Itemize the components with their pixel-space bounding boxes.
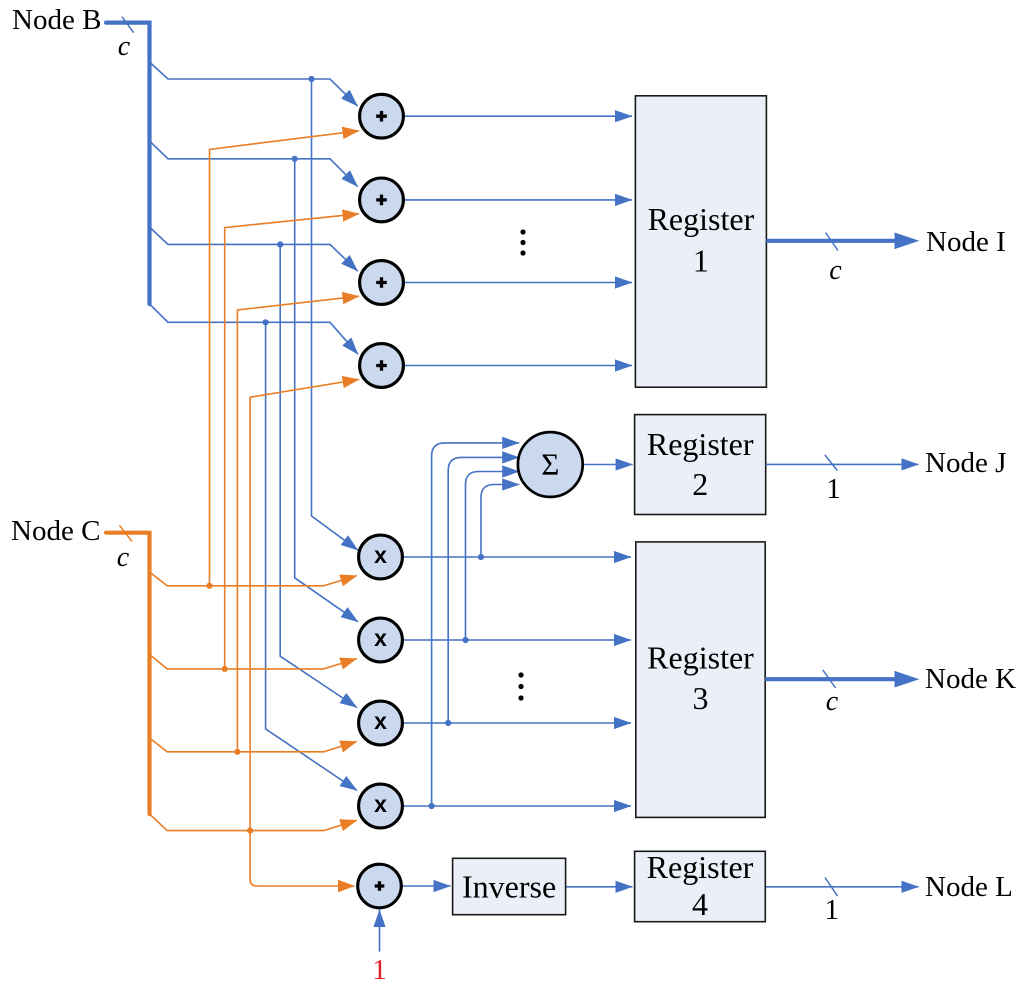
wire: B tap 3 down to multiplier M3 bbox=[280, 244, 357, 707]
inverse unit bbox=[453, 858, 566, 914]
wire: inverse output to register 4 bbox=[566, 886, 633, 888]
adder A2 bbox=[360, 178, 404, 222]
adder A1 bbox=[360, 94, 404, 138]
wire: M1 tap up to sigma input 4 bbox=[481, 485, 519, 558]
node B bus wire bbox=[106, 23, 150, 304]
svg-text:4: 4 bbox=[692, 886, 708, 922]
wire: adder A1 output to register 1 bbox=[404, 115, 632, 117]
svg-text:x: x bbox=[374, 791, 387, 817]
svg-text:Register: Register bbox=[647, 849, 754, 885]
svg-text:1: 1 bbox=[693, 243, 709, 279]
node L output wire bbox=[766, 886, 919, 888]
wire: sigma output to register 2 bbox=[583, 464, 633, 466]
wire: B branch 1 to adder A1 bbox=[150, 62, 358, 106]
ellipsis dots between multipliers bbox=[518, 672, 523, 700]
adder A3 bbox=[360, 261, 404, 305]
svg-text:Node B: Node B bbox=[12, 4, 101, 36]
register 4 bbox=[635, 849, 766, 922]
width slash (1) node J bbox=[825, 455, 837, 471]
wire: adder A4 output to register 1 bbox=[404, 365, 632, 367]
svg-text:1: 1 bbox=[824, 894, 839, 926]
junction dot M3 bbox=[445, 720, 451, 726]
wire: B branch 2 to adder A2 bbox=[150, 141, 358, 187]
junction dot C4 bbox=[247, 828, 253, 834]
svg-text:1: 1 bbox=[372, 954, 387, 986]
bus width slash (c) on node B bbox=[122, 17, 134, 33]
junction dot B1 bbox=[308, 76, 314, 82]
summation unit sigma bbox=[518, 432, 583, 497]
svg-text:1: 1 bbox=[826, 473, 841, 505]
wire: multiplier M4 output to register 3 bbox=[403, 805, 631, 807]
wire: B tap 1 down to multiplier M1 bbox=[312, 79, 359, 550]
junction dot C3 bbox=[234, 749, 240, 755]
wire: multiplier M1 output to register 3 bbox=[403, 556, 631, 558]
wire: C tap 3 up to adder A3 bbox=[237, 296, 359, 752]
junction dot B2 bbox=[292, 156, 298, 162]
multiplier M3 bbox=[359, 701, 403, 745]
svg-text:Inverse: Inverse bbox=[462, 869, 556, 905]
junction dot C2 bbox=[222, 666, 228, 672]
svg-text:x: x bbox=[374, 708, 387, 734]
adder A5 bbox=[358, 864, 402, 908]
svg-text:Register: Register bbox=[647, 426, 754, 462]
node C bus wire bbox=[106, 533, 150, 814]
wire: C tap 4 up to adder A4 bbox=[250, 379, 359, 830]
junction dot B4 bbox=[263, 319, 269, 325]
multiplier M2 bbox=[359, 618, 403, 662]
svg-text:Node I: Node I bbox=[926, 226, 1006, 258]
bus width slash (c) node I bbox=[826, 233, 839, 251]
wire: adder A3 output to register 1 bbox=[404, 282, 632, 284]
wire: B branch 4 to adder A4 bbox=[150, 304, 359, 354]
svg-text:c: c bbox=[826, 686, 839, 717]
wire: C tap 1 up to adder A1 bbox=[210, 131, 360, 586]
junction dot M2 bbox=[462, 637, 468, 643]
wire: C branch 2 to multiplier M2 bbox=[150, 654, 357, 669]
wire: constant 1 up into adder A5 bbox=[379, 910, 381, 951]
svg-text:2: 2 bbox=[692, 466, 708, 502]
wire: C branch 4 to multiplier M4 bbox=[150, 814, 357, 831]
svg-text:3: 3 bbox=[693, 680, 709, 716]
svg-text:Σ: Σ bbox=[541, 446, 559, 481]
bus width slash (c) on node C bbox=[120, 526, 133, 542]
junction dot M4 bbox=[429, 803, 435, 809]
svg-text:Register: Register bbox=[648, 201, 755, 237]
svg-text:Node L: Node L bbox=[925, 871, 1013, 903]
svg-text:c: c bbox=[117, 542, 130, 573]
register 2 bbox=[635, 415, 766, 515]
bus width slash (c) node K bbox=[823, 670, 836, 688]
ellipsis dots between adders bbox=[520, 229, 525, 255]
node K output bus bbox=[765, 677, 895, 681]
svg-text:x: x bbox=[374, 625, 387, 651]
wire: multiplier M3 output to register 3 bbox=[403, 722, 631, 724]
wire: M4 tap up to sigma input 1 bbox=[432, 443, 520, 806]
svg-text:c: c bbox=[118, 31, 131, 62]
svg-text:Node J: Node J bbox=[925, 447, 1006, 479]
junction dot M1 bbox=[478, 554, 484, 560]
wire: C tap 2 up to adder A2 bbox=[225, 214, 359, 669]
wire: B branch 3 to adder A3 bbox=[150, 227, 358, 271]
wire: multiplier M2 output to register 3 bbox=[403, 639, 631, 641]
junction dot C1 bbox=[206, 583, 212, 589]
wire: C branch 1 to multiplier M1 bbox=[150, 572, 357, 586]
register 3 bbox=[636, 542, 765, 818]
svg-text:c: c bbox=[829, 255, 842, 286]
node J output wire bbox=[766, 463, 919, 465]
register 1 bbox=[635, 96, 766, 387]
wire: B tap 2 down to multiplier M2 bbox=[295, 159, 358, 622]
wire: adder A2 output to register 1 bbox=[404, 199, 632, 201]
node I output bus bbox=[766, 239, 894, 243]
wire: C branch 3 to multiplier M3 bbox=[150, 738, 357, 752]
svg-text:Register: Register bbox=[647, 640, 754, 676]
adder A4 bbox=[360, 344, 404, 388]
wire: C tap down to adder A5 bbox=[250, 831, 354, 886]
svg-text:Node K: Node K bbox=[925, 663, 1016, 695]
multiplier M1 bbox=[359, 535, 403, 579]
svg-text:x: x bbox=[374, 542, 387, 568]
junction dot B3 bbox=[277, 241, 283, 247]
wire: M2 tap up to sigma input 3 bbox=[466, 472, 520, 641]
wire: adder A5 output to inverse bbox=[402, 885, 451, 887]
svg-text:Node C: Node C bbox=[11, 515, 100, 547]
wire: M3 tap up to sigma input 2 bbox=[448, 457, 519, 723]
wire: B tap 4 down to multiplier M4 bbox=[266, 322, 357, 790]
multiplier M4 bbox=[359, 784, 403, 828]
width slash (1) node L bbox=[825, 878, 838, 897]
